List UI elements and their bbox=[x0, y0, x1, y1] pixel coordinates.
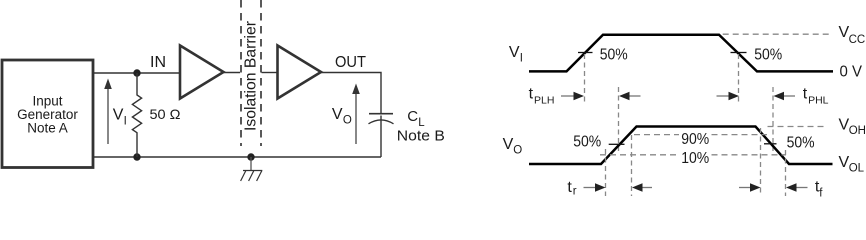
dashed level VOH bbox=[768, 126, 827, 128]
node bottom junction dot (resistor) bbox=[133, 153, 140, 160]
capacitor CL bbox=[369, 114, 394, 157]
svg-text:CCI: CCI bbox=[849, 34, 866, 46]
VO waveform bbox=[529, 127, 833, 165]
ground bbox=[241, 157, 263, 181]
dashed level 10% right bbox=[712, 154, 787, 156]
tick 50% VO rising bbox=[609, 143, 625, 145]
label tPHL bbox=[803, 85, 829, 106]
svg-text:90%: 90% bbox=[681, 131, 709, 148]
svg-text:50%: 50% bbox=[600, 47, 628, 64]
svg-text:PLH: PLH bbox=[534, 94, 554, 106]
arrow tPLH left bbox=[619, 92, 641, 100]
svg-text:PHL: PHL bbox=[808, 94, 829, 106]
wire bottom bbox=[93, 156, 381, 158]
svg-text:I: I bbox=[124, 115, 127, 127]
wire U1 to barrier bbox=[224, 72, 241, 74]
svg-text:O: O bbox=[343, 115, 352, 127]
label VO bbox=[332, 106, 352, 127]
svg-text:t: t bbox=[529, 85, 534, 102]
node IN junction dot bbox=[133, 69, 140, 76]
label VI (waveform) bbox=[509, 44, 523, 64]
svg-text:50%: 50% bbox=[787, 134, 815, 151]
wire OUT to capacitor bbox=[321, 73, 381, 114]
tick 50% VO falling bbox=[764, 143, 777, 145]
svg-text:t: t bbox=[803, 85, 808, 102]
arrow tPLH right bbox=[561, 92, 584, 100]
dashed vertical VI falling 50% bbox=[738, 54, 740, 105]
dashed level 10% left bbox=[600, 154, 679, 156]
svg-text:V: V bbox=[503, 136, 514, 153]
arrow tPHL left bbox=[774, 92, 796, 100]
dashed vertical tr left (10%) bbox=[605, 149, 607, 196]
isolation barrier dashed line right bbox=[260, 0, 262, 146]
tick 50% VI falling bbox=[731, 52, 747, 54]
svg-text:50%: 50% bbox=[754, 47, 782, 64]
dashed level 90% right bbox=[712, 134, 768, 136]
svg-text:O: O bbox=[513, 144, 522, 156]
label VCCI bbox=[839, 24, 866, 46]
svg-text:C: C bbox=[407, 108, 418, 125]
op-amp buffer U2 bbox=[278, 46, 322, 99]
svg-text:r: r bbox=[573, 186, 577, 198]
label VOH bbox=[839, 117, 866, 138]
label VOL bbox=[839, 154, 865, 174]
arrow VI measurement bbox=[104, 79, 112, 145]
isolation barrier dashed line left bbox=[240, 0, 242, 146]
node bottom junction dot (ground) bbox=[247, 153, 254, 160]
arrow tr left bbox=[632, 183, 652, 191]
arrow tf left bbox=[786, 183, 808, 191]
arrow tr right bbox=[584, 183, 606, 191]
op-amp buffer U1 bbox=[180, 46, 224, 99]
resistor 50 ohm bbox=[132, 73, 141, 157]
label tPLH bbox=[529, 85, 555, 106]
label tr bbox=[567, 179, 576, 198]
VI waveform bbox=[529, 35, 833, 72]
svg-text:OH: OH bbox=[849, 125, 866, 137]
svg-text:V: V bbox=[113, 107, 124, 124]
svg-text:OL: OL bbox=[849, 162, 865, 174]
input generator box bbox=[2, 60, 93, 168]
arrow VO measurement bbox=[352, 84, 360, 145]
svg-text:50 Ω: 50 Ω bbox=[150, 106, 181, 122]
dashed level VCCI bbox=[723, 33, 829, 35]
dashed vertical tf left (90%) bbox=[760, 128, 762, 196]
svg-text:0 V: 0 V bbox=[840, 63, 863, 80]
svg-text:OUT: OUT bbox=[335, 54, 366, 71]
svg-text:Note B: Note B bbox=[397, 127, 445, 144]
dashed vertical tf right (10%) bbox=[785, 150, 787, 196]
dashed vertical VO rising 50% bbox=[618, 87, 620, 151]
svg-text:50%: 50% bbox=[573, 134, 601, 151]
dashed vertical tr right (90%) bbox=[631, 135, 633, 196]
dashed level 90% left bbox=[634, 134, 679, 136]
wire barrier to U2 bbox=[262, 72, 278, 74]
svg-text:t: t bbox=[567, 179, 572, 196]
svg-text:V: V bbox=[332, 106, 343, 123]
tick 50% VI rising bbox=[578, 52, 593, 54]
label VI bbox=[113, 107, 127, 128]
label tf bbox=[815, 178, 823, 199]
arrow tPHL right bbox=[717, 92, 740, 100]
dashed vertical VO falling 50% bbox=[772, 87, 774, 151]
dashed vertical VI rising 50% bbox=[584, 54, 586, 105]
label VO (waveform) bbox=[503, 136, 523, 156]
svg-text:V: V bbox=[509, 44, 520, 61]
label CL Note B bbox=[397, 108, 445, 145]
svg-text:IN: IN bbox=[150, 54, 166, 71]
svg-text:I: I bbox=[520, 52, 523, 64]
arrow tf right bbox=[739, 183, 761, 191]
svg-text:10%: 10% bbox=[681, 150, 709, 167]
wire top (box to buffer input) bbox=[93, 72, 180, 74]
svg-text:Isolation Barrier: Isolation Barrier bbox=[243, 20, 260, 131]
svg-text:Note A: Note A bbox=[27, 120, 68, 135]
